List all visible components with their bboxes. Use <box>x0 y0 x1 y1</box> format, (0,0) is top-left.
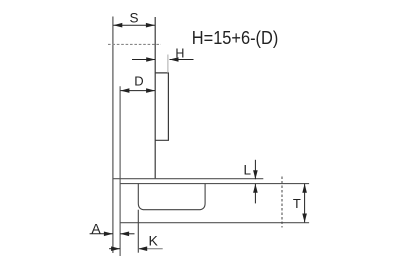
svg-text:H: H <box>175 47 184 61</box>
dimension S line <box>113 24 155 26</box>
dimension H leader left <box>132 59 155 61</box>
mounting plate on side panel <box>155 73 168 140</box>
door bottom edge <box>120 222 309 224</box>
dimension A leader left <box>90 233 113 235</box>
dimension H leader right <box>170 59 194 61</box>
dashed centerline vertical (door) <box>281 177 283 228</box>
dimension A leader right <box>120 233 134 235</box>
side panel right edge <box>154 17 156 179</box>
dashed centerline horizontal (cup axis) <box>108 43 161 45</box>
dimension L arrow upper <box>254 160 256 179</box>
K extension line below cup <box>137 210 139 253</box>
svg-text:T: T <box>293 196 301 211</box>
svg-text:S: S <box>129 11 138 26</box>
dimension T line <box>304 184 306 223</box>
door front face / D extension line <box>119 86 121 256</box>
H extension line above plate <box>167 55 169 73</box>
svg-text:L: L <box>243 163 251 178</box>
dimension K leader left <box>109 248 120 250</box>
svg-text:K: K <box>149 232 159 248</box>
side panel bottom edge / L extension line <box>113 178 263 180</box>
hinge cup recess in door <box>138 184 205 210</box>
svg-text:D: D <box>134 73 143 88</box>
dimension D line <box>120 90 155 92</box>
dimension K leader right <box>138 248 163 250</box>
side panel left edge / A extension line <box>112 17 114 254</box>
svg-text:A: A <box>91 220 101 236</box>
svg-text:H=15+6-(D): H=15+6-(D) <box>192 28 278 48</box>
door top edge <box>120 183 309 185</box>
dimension L arrow lower <box>254 184 256 204</box>
